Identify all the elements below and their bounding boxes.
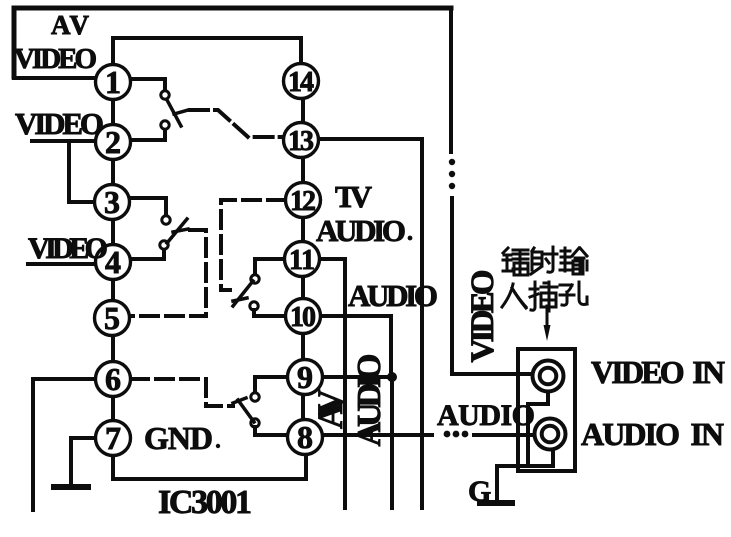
svg-text:AUDIO: AUDIO — [351, 354, 388, 447]
wire left pin column pins 1-7 — [111, 82, 115, 438]
pin 7 — [96, 421, 131, 456]
wire top bus from AV VIDEO box to right VIDEO drop — [14, 6, 451, 11]
wire bottom loop pin7 to pin8 — [113, 455, 306, 479]
label VIDEO vertical — [465, 270, 501, 363]
label AV (box) — [51, 10, 90, 40]
switch S1 dashed linkage to pin13 — [190, 110, 283, 137]
svg-text:5: 5 — [104, 300, 120, 336]
pin 4 — [96, 245, 131, 280]
ground bar at pin7 — [54, 484, 88, 490]
label AUDIO pin12 — [316, 213, 406, 248]
pin 6 — [96, 362, 131, 397]
svg-text:VIDEO IN: VIDEO IN — [591, 354, 725, 390]
pin 2 — [96, 125, 131, 160]
switch S3 wire from pin11 to upper contact — [255, 259, 285, 274]
wire pin11 to bottom (AV audio bus) — [320, 259, 345, 508]
wire jack ground bus — [497, 464, 553, 468]
pin 11 — [285, 242, 320, 277]
svg-text:1: 1 — [105, 64, 121, 100]
svg-text:TV: TV — [335, 179, 373, 214]
pin 9 — [288, 360, 323, 395]
RCA jack AUDIO IN inner — [542, 426, 559, 443]
label G — [468, 475, 491, 508]
RCA jack VIDEO IN inner — [540, 368, 557, 385]
label laser input jack (Chinese) row1 镭射输 — [503, 247, 587, 275]
wire pin7 to ground — [71, 438, 96, 486]
pin 6 number — [105, 361, 121, 397]
pin 14 number — [288, 67, 314, 98]
pin 5 number — [104, 300, 120, 336]
pin 10 number — [290, 302, 316, 333]
pin 8 number — [297, 419, 313, 455]
pin 7 number — [105, 420, 121, 456]
svg-text:AV: AV — [51, 10, 90, 40]
label AUDIO pin10 — [348, 278, 438, 313]
RCA jack VIDEO IN outer — [533, 361, 564, 392]
label VIDEO pin4 — [28, 232, 108, 265]
switch S4 upper contact — [251, 393, 259, 401]
pin 9 number — [297, 359, 313, 395]
svg-text:VIDEO: VIDEO — [15, 106, 104, 141]
pin 12 number — [290, 186, 316, 217]
switch S4 arm — [238, 400, 254, 422]
wire right pin column pins 14-8 — [301, 81, 305, 437]
pin 8 — [288, 420, 323, 455]
switch S3 upper contact — [251, 275, 259, 283]
switch S1 wire from pin1 to upper contact — [130, 79, 165, 90]
wire audio jack ground — [551, 450, 555, 466]
wire video feed to VIDEO IN jack — [452, 198, 532, 374]
wire pin6 left to bottom left — [33, 379, 96, 510]
switch S4 actuator tick — [233, 398, 246, 403]
dotted break on video feed — [449, 159, 455, 189]
switch S2 wire from pin4 to lower contact — [130, 250, 164, 259]
RCA jack AUDIO IN outer — [535, 419, 566, 450]
switch S1 actuator tick — [174, 110, 188, 114]
label AV vertical — [310, 389, 350, 429]
svg-text:VIDEO: VIDEO — [28, 232, 108, 265]
ground bar G — [480, 500, 512, 506]
switch S3 wire lower contact to pin10 — [254, 310, 286, 316]
wire G ground leg — [495, 466, 499, 501]
pin 3 — [95, 185, 130, 220]
pin 1 — [96, 65, 131, 100]
svg-text:10: 10 — [290, 302, 316, 333]
svg-text:AUDIO: AUDIO — [437, 399, 535, 432]
switch S3 dashed linkage from pin12 — [221, 200, 285, 285]
AV VIDEO label box bottom edge — [14, 76, 96, 80]
switch S1 lower contact — [161, 121, 169, 129]
dot after AUDIO label — [408, 236, 413, 241]
switch S1 upper contact — [161, 91, 169, 99]
wire pin13 right then down to bottom — [318, 139, 422, 508]
svg-text:VIDEO: VIDEO — [14, 43, 97, 75]
svg-text:2: 2 — [105, 124, 121, 160]
label IC3001 — [158, 484, 252, 521]
svg-text:G: G — [468, 475, 491, 508]
wire VIDEO input to pin2 — [32, 139, 95, 143]
label TV — [335, 179, 373, 214]
pin 12 — [286, 183, 321, 218]
label VIDEO pin2 — [15, 106, 104, 141]
wire pin8 audio line right — [322, 433, 432, 437]
switch S2 dashed linkage to pin5 — [130, 230, 206, 316]
switch S3 lower contact — [250, 302, 258, 310]
switch S1 arm — [167, 100, 181, 126]
switch S4 lower contact — [251, 419, 259, 427]
dot after GND label — [216, 444, 220, 448]
svg-text:14: 14 — [288, 67, 314, 98]
dotted break on audio line — [444, 431, 469, 438]
switch S4 wire lower contact to pin8 — [255, 427, 288, 435]
pin 3 number — [104, 184, 120, 220]
pin 1 number — [105, 64, 121, 100]
wire VIDEO input to pin4 — [28, 262, 96, 266]
pin 4 number — [105, 244, 121, 280]
switch S2 wire from pin3 to upper contact — [129, 198, 166, 215]
pin 14 — [284, 64, 319, 99]
switch S3 actuator tick — [233, 298, 247, 301]
wire video jack ground — [528, 392, 548, 466]
label VIDEO IN — [591, 354, 725, 390]
pin 10 — [286, 299, 321, 334]
switch S2 arm — [167, 219, 187, 243]
jack plate — [518, 349, 575, 471]
svg-text:AV: AV — [310, 389, 350, 429]
wire pin9 right — [322, 375, 392, 379]
svg-text:IC3001: IC3001 — [158, 484, 252, 521]
wire audio line to AUDIO IN jack — [474, 433, 534, 437]
pin 13 number — [288, 126, 314, 157]
pin 5 — [95, 301, 130, 336]
switch S2 lower contact — [160, 241, 168, 249]
svg-text:12: 12 — [290, 186, 316, 217]
AV VIDEO label box left edge — [12, 8, 17, 77]
switch S1 wire from pin2 to lower contact — [130, 130, 165, 140]
junction node pin9/pin10 — [387, 372, 397, 382]
svg-text:11: 11 — [289, 245, 315, 276]
wire pin1 top to pin14 top — [113, 38, 301, 66]
label AUDIO vertical — [351, 354, 388, 447]
wire VIDEO feed right side down — [449, 8, 453, 152]
svg-text:7: 7 — [105, 420, 121, 456]
svg-text:6: 6 — [105, 361, 121, 397]
svg-text:13: 13 — [288, 126, 314, 157]
pin 13 — [284, 123, 319, 158]
pin 2 number — [105, 124, 121, 160]
label laser input jack (Chinese) row2 入插孔 — [502, 282, 587, 311]
switch S3 linkage corner — [221, 286, 230, 290]
svg-text:AUDIO IN: AUDIO IN — [581, 416, 724, 452]
svg-text:AUDIO: AUDIO — [316, 213, 406, 248]
svg-text:VIDEO: VIDEO — [465, 270, 501, 363]
switch S4 dashed linkage from pin6 — [131, 379, 233, 406]
switch S4 wire from pin9 to upper contact — [255, 377, 288, 392]
pin 11 number — [289, 245, 315, 276]
label AUDIO pin8 line — [437, 399, 535, 432]
label VIDEO (box) — [14, 43, 97, 75]
wire branch VIDEO input down to pin3 — [69, 141, 94, 202]
svg-text:GND: GND — [144, 420, 213, 456]
switch S2 upper contact — [162, 216, 170, 224]
wire pin10 right then down — [321, 316, 391, 377]
switch S2 actuator tick — [173, 229, 188, 232]
label GND — [144, 420, 213, 456]
switch S3 arm — [233, 281, 253, 306]
svg-text:3: 3 — [104, 184, 120, 220]
svg-text:AUDIO: AUDIO — [348, 278, 438, 313]
arrow from laser jack label — [544, 306, 551, 341]
label AUDIO IN — [581, 416, 724, 452]
wire junction down to bottom (audio bus) — [390, 377, 394, 508]
